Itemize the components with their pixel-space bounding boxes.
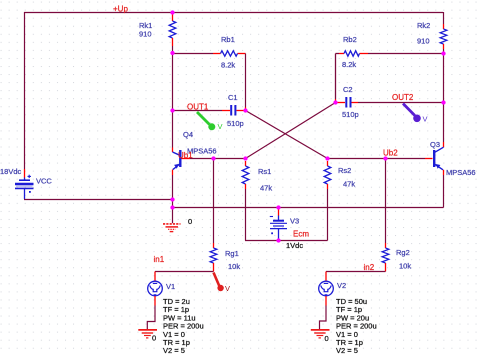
voltage source V1 <box>148 272 163 306</box>
svg-text:Rb2: Rb2 <box>343 35 357 44</box>
svg-text:C2: C2 <box>343 85 353 94</box>
svg-text:18Vdc: 18Vdc <box>0 167 22 176</box>
wire Rs2 down <box>327 189 329 241</box>
wire V1 to ground <box>147 306 155 330</box>
resistor Rg1 <box>210 243 217 272</box>
svg-text:910: 910 <box>417 37 430 46</box>
wire emitter common rail <box>172 207 444 209</box>
svg-text:47k: 47k <box>260 184 272 193</box>
capacitor C1 <box>222 105 245 116</box>
svg-text:OUT2: OUT2 <box>392 93 414 102</box>
battery V3 <box>270 209 287 239</box>
svg-text:Rb1: Rb1 <box>221 35 235 44</box>
transistor Q3 <box>434 142 443 175</box>
wire V2 to ground <box>320 306 327 330</box>
svg-text:VCC: VCC <box>36 177 52 186</box>
probe V in1 (red) <box>214 273 231 294</box>
svg-text:0: 0 <box>152 334 156 343</box>
wire Rk1 to Q4 column <box>172 46 174 148</box>
wire Rb1 row <box>172 53 246 55</box>
svg-text:V2 = 5: V2 = 5 <box>163 346 185 355</box>
resistor Rk2 <box>440 24 447 49</box>
wire Rs1 down <box>245 189 247 241</box>
svg-text:+Up: +Up <box>113 5 128 14</box>
wire diagonal C1 to Rs2 <box>246 111 328 159</box>
capacitor C2 <box>336 97 359 108</box>
svg-text:Q4: Q4 <box>183 130 193 139</box>
svg-text:MPSA56: MPSA56 <box>446 168 476 177</box>
wire Rb2 row <box>336 54 444 103</box>
resistor Rg2 <box>382 243 389 272</box>
wire top +Up rail <box>24 12 443 14</box>
ground 0 under V1 <box>138 330 157 338</box>
probe V OUT1 (green) <box>197 112 223 131</box>
svg-text:10k: 10k <box>228 262 240 271</box>
wire left VCC column <box>24 12 26 169</box>
wire OUT1 rail <box>172 110 222 112</box>
svg-text:Ub2: Ub2 <box>383 149 398 158</box>
wire in1 <box>155 271 214 273</box>
svg-text:8.2k: 8.2k <box>221 61 235 70</box>
wire Q4 emitter down <box>172 175 174 199</box>
resistor Rb2 <box>344 51 360 56</box>
svg-text:V: V <box>218 122 223 131</box>
transistor Q4 <box>173 148 191 176</box>
svg-text:Rk2: Rk2 <box>417 21 430 30</box>
svg-text:Q3: Q3 <box>430 140 440 149</box>
svg-text:V: V <box>423 115 428 124</box>
resistor Rs2 <box>324 161 331 189</box>
wire VCC bottom rail <box>24 199 172 201</box>
resistor Rb1 <box>221 51 238 56</box>
wire Rk2 column top <box>443 12 445 24</box>
svg-text:Rs2: Rs2 <box>338 166 351 175</box>
svg-text:0: 0 <box>188 217 192 226</box>
svg-text:V: V <box>225 284 230 293</box>
svg-text:V2: V2 <box>337 281 346 290</box>
svg-text:Rg2: Rg2 <box>396 248 410 257</box>
voltage source V2 <box>319 272 334 306</box>
svg-text:0: 0 <box>325 334 329 343</box>
wire diagonal C2 to Rs1 <box>246 103 336 159</box>
ground 0 under V2 <box>311 330 330 338</box>
svg-text:C1: C1 <box>228 93 238 102</box>
battery VCC <box>15 175 34 199</box>
svg-text:10k: 10k <box>399 262 411 271</box>
wire VCC top pin <box>24 169 26 178</box>
svg-text:V1: V1 <box>166 282 175 291</box>
V2 parameters <box>336 297 377 355</box>
svg-text:Rg1: Rg1 <box>225 249 239 258</box>
svg-text:V2 = 5: V2 = 5 <box>336 346 358 355</box>
wire Rg2 column <box>385 159 387 244</box>
svg-text:V3: V3 <box>290 217 299 226</box>
svg-text:8.2k: 8.2k <box>342 60 356 69</box>
wire Rk2 to OUT2 <box>443 49 445 142</box>
svg-text:910: 910 <box>139 30 152 39</box>
V1 parameters <box>163 297 204 355</box>
svg-text:47k: 47k <box>343 180 355 189</box>
wire in2 <box>326 271 386 273</box>
wire V3 bottom rail <box>245 240 328 242</box>
ground 0 main <box>163 224 181 232</box>
wire base rail left <box>190 158 246 160</box>
svg-text:510p: 510p <box>342 110 359 119</box>
wire Rg1 column <box>213 159 215 244</box>
resistor Rs1 <box>242 161 249 189</box>
wire OUT2 rail <box>358 102 444 104</box>
svg-text:in2: in2 <box>364 263 375 272</box>
svg-text:OUT1: OUT1 <box>187 103 209 112</box>
wire Rb1 right column down to C1 <box>245 54 247 108</box>
svg-text:Ecm: Ecm <box>293 230 309 239</box>
svg-text:Rs1: Rs1 <box>258 167 271 176</box>
wire Q3 emitter down <box>443 175 445 208</box>
resistor Rk1 <box>169 13 176 46</box>
svg-text:1Vdc: 1Vdc <box>286 241 303 250</box>
wire base rail right <box>328 158 426 160</box>
svg-text:in1: in1 <box>154 255 165 264</box>
probe V OUT2 (purple) <box>403 104 428 124</box>
svg-text:510p: 510p <box>227 119 244 128</box>
